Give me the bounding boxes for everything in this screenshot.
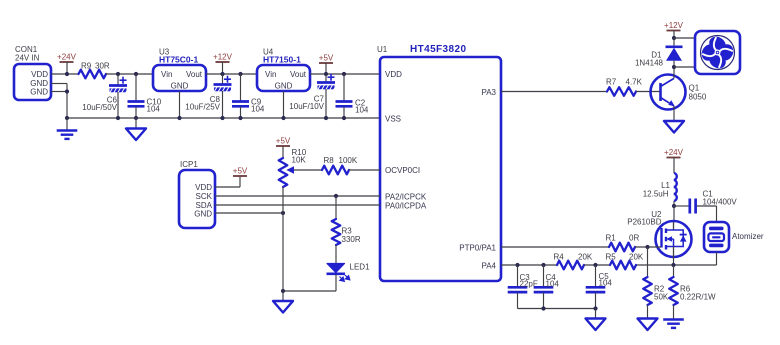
wire cap ground run xyxy=(518,308,596,310)
svg-text:SCK: SCK xyxy=(196,192,213,201)
ground triangle center xyxy=(282,291,284,301)
svg-text:104: 104 xyxy=(546,280,560,289)
svg-text:GND: GND xyxy=(275,82,293,91)
svg-text:GND: GND xyxy=(30,88,48,97)
resistor R7 4.7K xyxy=(607,87,636,96)
wire U4 Vout to U1 VDD xyxy=(310,73,380,75)
node C10 top xyxy=(134,72,138,76)
svg-text:10uF/50V: 10uF/50V xyxy=(82,103,117,112)
svg-text:+12V: +12V xyxy=(664,21,684,30)
ground triangle under C10 xyxy=(135,118,137,129)
resistor R3 330R xyxy=(335,196,337,219)
node rail C7 xyxy=(324,116,328,120)
wiper arrow of R10 xyxy=(291,169,322,171)
wire ICP1 VDD pin xyxy=(215,186,240,188)
MOSFET U2 P2610BD xyxy=(673,206,675,222)
svg-text:PA4: PA4 xyxy=(481,262,496,271)
resistor R8 100K xyxy=(322,166,349,175)
svg-text:10K: 10K xyxy=(292,156,307,165)
resistor R10 10K potentiometer xyxy=(279,158,288,187)
capacitor C4 104 xyxy=(543,265,545,287)
capacitor C7 10uF/10V xyxy=(325,74,327,82)
transistor Q1 8050 xyxy=(651,75,686,110)
svg-text:24V IN: 24V IN xyxy=(15,54,40,63)
svg-text:Q1: Q1 xyxy=(689,84,700,93)
svg-text:+12V: +12V xyxy=(213,53,233,62)
capacitor C10 104 xyxy=(135,74,137,101)
wire PA4 line xyxy=(501,264,557,266)
wire ground rail xyxy=(67,117,380,119)
node Q1 collector junction xyxy=(672,65,676,69)
svg-text:GND: GND xyxy=(194,210,212,219)
wire L1 to node xyxy=(673,201,675,206)
svg-text:HT45F3820: HT45F3820 xyxy=(410,44,466,55)
wire R2 to gnd xyxy=(647,305,649,319)
wire R10 bottom drop xyxy=(282,187,284,291)
node C3 top xyxy=(515,263,519,267)
svg-text:Vin: Vin xyxy=(161,70,172,79)
svg-text:50K: 50K xyxy=(654,293,669,302)
node C4 top xyxy=(541,263,545,267)
connector ICP1 xyxy=(179,170,215,228)
wire R4 to R5 xyxy=(584,264,610,266)
svg-text:R9: R9 xyxy=(81,62,92,71)
svg-text:10uF/25V: 10uF/25V xyxy=(185,103,220,112)
svg-text:ICP1: ICP1 xyxy=(180,160,198,169)
svg-text:104: 104 xyxy=(147,105,161,114)
connector CON1 xyxy=(14,64,51,100)
node rail CON1 xyxy=(65,116,69,120)
wire R7 to Q1 base xyxy=(636,91,660,93)
fan motor M1 xyxy=(695,31,740,74)
regulator U4 HT7150-1 xyxy=(257,65,310,91)
wire U4 GND stem xyxy=(283,91,285,118)
wire R3 to LED1 xyxy=(335,245,337,263)
wire CON1 GND1 pin xyxy=(51,83,67,85)
wire R9 to C6 xyxy=(106,73,152,75)
svg-text:+24V: +24V xyxy=(57,53,77,62)
wire U2 source drop xyxy=(673,257,675,265)
svg-text:104: 104 xyxy=(599,279,613,288)
node cap run C4 xyxy=(541,306,545,310)
wire R8 to OCVP0CI xyxy=(349,169,380,171)
wire node to C1 xyxy=(674,205,689,207)
resistor R6 0.22R/1W xyxy=(669,277,678,305)
svg-text:R5: R5 xyxy=(606,253,617,262)
ground triangle under C5 xyxy=(595,309,597,319)
ground earth under CON1 xyxy=(66,118,68,131)
regulator U3 HT75C0-1 xyxy=(153,65,206,91)
svg-text:12.5uH: 12.5uH xyxy=(643,190,669,199)
svg-text:10uF/10V: 10uF/10V xyxy=(289,102,324,111)
wire PTP0/PA1 to R1 xyxy=(501,246,609,248)
node source junction xyxy=(671,263,675,267)
capacitor C1 104/400V xyxy=(688,199,691,214)
node drain junction xyxy=(672,204,676,208)
svg-text:HT7150-1: HT7150-1 xyxy=(263,55,301,65)
svg-text:0R: 0R xyxy=(629,234,639,243)
wire fan pin2 xyxy=(674,66,695,68)
svg-text:+5V: +5V xyxy=(233,167,248,176)
svg-text:4.7K: 4.7K xyxy=(626,78,643,87)
svg-text:+5V: +5V xyxy=(319,54,334,63)
wire SCK to PA2/ICPCK xyxy=(215,195,380,197)
svg-text:R8: R8 xyxy=(324,156,335,165)
node ICP1 gnd junction xyxy=(281,211,285,215)
node C6 top xyxy=(116,72,120,76)
node +24V junction xyxy=(65,72,69,76)
wire LED1 cathode drop xyxy=(335,275,337,292)
svg-text:U1: U1 xyxy=(377,45,388,54)
wire LED to gnd run xyxy=(283,290,336,292)
wire fan pin1 xyxy=(674,37,695,39)
wire Q1 collector xyxy=(673,67,675,79)
svg-text:20K: 20K xyxy=(629,253,644,262)
capacitor C5 104 xyxy=(595,265,597,287)
svg-text:Atomizer: Atomizer xyxy=(732,232,764,241)
svg-text:1N4148: 1N4148 xyxy=(635,59,664,68)
svg-text:+5V: +5V xyxy=(276,137,291,146)
ground earth under R6 xyxy=(663,318,684,320)
svg-text:R1: R1 xyxy=(606,234,617,243)
svg-text:Vout: Vout xyxy=(186,70,203,79)
node C2 top xyxy=(342,72,346,76)
wire CON1 GND2 pin xyxy=(51,91,67,93)
node cap run C5 xyxy=(593,306,597,310)
svg-text:20K: 20K xyxy=(578,253,593,262)
node C8 top xyxy=(220,72,224,76)
svg-text:VDD: VDD xyxy=(385,70,402,79)
MCU U1 HT45F3820 xyxy=(380,57,501,281)
node R3 top on SCK line xyxy=(334,194,338,198)
capacitor C8 10uF/25V xyxy=(222,74,224,84)
node C9 top xyxy=(238,72,242,76)
svg-text:8050: 8050 xyxy=(689,93,707,102)
svg-text:P2610BD: P2610BD xyxy=(627,218,661,227)
svg-text:30R: 30R xyxy=(95,62,110,71)
wire atomizer bottom xyxy=(716,252,718,265)
node rail C9 xyxy=(238,116,242,120)
wire R6 to gnd xyxy=(673,305,675,320)
svg-text:0.22R/1W: 0.22R/1W xyxy=(680,293,716,302)
svg-text:104: 104 xyxy=(251,105,265,114)
svg-text:GND: GND xyxy=(171,82,189,91)
wire U3 GND stem xyxy=(179,91,181,118)
resistor R4 20K xyxy=(557,261,584,270)
wire gate node to R2 xyxy=(647,247,649,277)
wire R1 to gate node xyxy=(635,246,661,248)
node gnd run junction xyxy=(281,289,285,293)
svg-text:104: 104 xyxy=(355,106,369,115)
node rail U3 gnd xyxy=(177,116,181,120)
svg-text:PA3: PA3 xyxy=(481,88,496,97)
wire CON1 VDD pin xyxy=(51,73,79,75)
inductor L1 12.5uH xyxy=(674,173,677,201)
svg-text:R4: R4 xyxy=(554,253,565,262)
svg-text:Vin: Vin xyxy=(265,70,276,79)
node rail C10 xyxy=(134,116,138,120)
svg-text:+24V: +24V xyxy=(664,148,684,157)
svg-text:OCVP0CI: OCVP0CI xyxy=(385,166,420,175)
svg-text:VDD: VDD xyxy=(195,183,212,192)
svg-text:VDD: VDD xyxy=(31,70,48,79)
atomizer heater xyxy=(704,222,729,252)
svg-text:LED1: LED1 xyxy=(350,263,371,272)
node rail U4 gnd xyxy=(281,116,285,120)
diode D1 1N4148 xyxy=(673,38,675,47)
node rail C8 xyxy=(220,116,224,120)
node C7 top xyxy=(324,72,328,76)
node D1 cathode junction xyxy=(672,36,676,40)
wire C1 to atomizer top xyxy=(697,205,717,207)
capacitor C6 10uF/50V xyxy=(117,74,119,85)
node CON1 GND2 junction xyxy=(65,89,69,93)
svg-text:330R: 330R xyxy=(342,235,361,244)
resistor R1 0R xyxy=(609,243,635,252)
svg-text:Vout: Vout xyxy=(290,70,307,79)
svg-text:PTP0/PA1: PTP0/PA1 xyxy=(459,244,496,253)
svg-text:PA2/ICPCK: PA2/ICPCK xyxy=(385,193,427,202)
svg-text:HT75C0-1: HT75C0-1 xyxy=(159,55,198,65)
ground triangle under Q1 xyxy=(664,121,684,133)
wire U3 Vout to U4 Vin xyxy=(206,73,257,75)
svg-text:104/400V: 104/400V xyxy=(703,198,738,207)
wire ICP1 GND pin xyxy=(215,212,283,214)
node rail C2 xyxy=(342,116,346,120)
wire SDA to PA0/ICPDA xyxy=(215,204,380,206)
svg-text:100K: 100K xyxy=(339,156,358,165)
wire CON1 gnd drop xyxy=(66,84,68,119)
LED LED1 xyxy=(327,264,345,273)
svg-text:R7: R7 xyxy=(606,78,617,87)
node C5 top xyxy=(593,263,597,267)
node rail C6 xyxy=(116,116,120,120)
svg-text:VSS: VSS xyxy=(385,115,401,124)
svg-text:PA0/ICPDA: PA0/ICPDA xyxy=(385,202,427,211)
node gate junction xyxy=(645,245,649,249)
wire R6 top xyxy=(673,265,675,277)
capacitor C2 104 xyxy=(343,74,345,101)
wire PA3 to R7 xyxy=(501,91,607,93)
resistor R2 50K xyxy=(643,277,652,305)
capacitor C9 104 xyxy=(240,74,242,101)
ground triangle under R2 xyxy=(638,319,658,331)
capacitor C3 22pF xyxy=(517,265,519,287)
resistor R9 30R xyxy=(79,70,107,79)
resistor R5 20K xyxy=(610,261,636,270)
wire Q1 emitter drop xyxy=(673,106,675,121)
